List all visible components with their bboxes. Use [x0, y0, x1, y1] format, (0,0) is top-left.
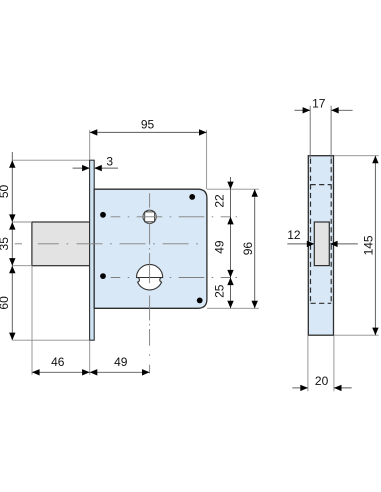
svg-text:25: 25 — [213, 284, 227, 298]
extension line 46/49 middle — [89, 340, 91, 375]
extension line 20 right — [333, 336, 335, 391]
svg-text:17: 17 — [312, 96, 326, 110]
svg-text:49: 49 — [213, 240, 227, 254]
extension line 46 left — [31, 266, 33, 375]
side view hidden lock case left edge — [310, 159, 312, 304]
svg-text:145: 145 — [361, 235, 375, 255]
bolt axis centerline — [15, 243, 198, 245]
screw hole top-right — [189, 194, 195, 200]
right chain dimension line — [230, 177, 232, 308]
dimension 3 lines — [73, 167, 90, 169]
dimension 145 line — [374, 156, 376, 336]
faceplate front view (edge) — [90, 160, 95, 340]
svg-text:20: 20 — [315, 374, 329, 388]
side view hidden lock case top — [311, 184, 332, 186]
extension line bolt top — [13, 221, 32, 223]
dimension 17 lines — [295, 109, 311, 111]
dimension 12 lines — [287, 243, 314, 245]
svg-text:49: 49 — [114, 355, 128, 369]
bolt front view — [32, 222, 90, 266]
svg-text:46: 46 — [51, 355, 65, 369]
svg-text:95: 95 — [141, 117, 155, 131]
dimension 95 line — [90, 131, 207, 133]
vertical centerline front view — [149, 193, 151, 373]
keyhole cylinder hole — [137, 264, 163, 290]
extension line body top right — [207, 188, 259, 190]
extension line 95 left — [89, 130, 91, 160]
extension line 17 right — [330, 106, 332, 158]
svg-text:3: 3 — [106, 155, 113, 169]
spindle horizontal centerline — [111, 216, 237, 218]
svg-text:50: 50 — [0, 185, 11, 199]
extension line 95 right — [206, 130, 208, 189]
side view bolt — [314, 222, 329, 266]
svg-text:12: 12 — [287, 228, 301, 242]
screw hole bottom-right — [197, 298, 203, 304]
dimension 96 line — [254, 189, 256, 308]
side view hidden lock case right edge — [330, 159, 332, 304]
lock body front view — [94, 189, 207, 308]
keyhole horizontal centerline — [111, 277, 237, 279]
extension line bolt bottom — [13, 265, 32, 267]
svg-text:22: 22 — [213, 194, 227, 208]
extension line 17 left — [309, 106, 311, 158]
svg-text:60: 60 — [0, 296, 11, 310]
extension line faceplate bottom — [13, 339, 89, 341]
side view hidden lock case bottom — [311, 302, 332, 304]
screw hole top-left — [100, 212, 106, 218]
svg-text:96: 96 — [241, 242, 255, 256]
svg-text:35: 35 — [0, 237, 11, 251]
spindle follower square hole — [143, 210, 156, 223]
extension line body bottom right — [207, 307, 259, 309]
dimension 20 lines — [292, 387, 308, 389]
left chain dimension line — [11, 152, 13, 340]
extension line 50 top — [13, 159, 89, 161]
extension line 145 bottom — [334, 334, 379, 336]
screw hole bottom-left — [100, 273, 106, 279]
bottom dimension line — [32, 371, 150, 373]
extension line 20 left — [307, 336, 309, 391]
side view faceplate strip — [308, 156, 333, 336]
extension line 145 top — [334, 155, 379, 157]
